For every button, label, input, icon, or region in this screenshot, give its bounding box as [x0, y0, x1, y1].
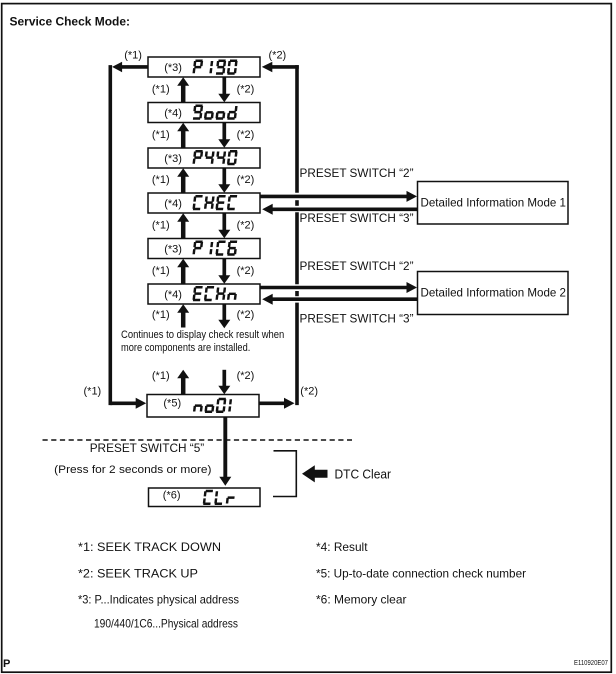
- svg-text:PRESET SWITCH “2”: PRESET SWITCH “2”: [300, 259, 414, 273]
- wire left loop vertical: [109, 65, 113, 405]
- svg-text:(*2): (*2): [237, 83, 255, 95]
- svg-text:Service Check Mode:: Service Check Mode:: [10, 14, 131, 28]
- svg-text:(*2): (*2): [237, 129, 255, 141]
- box Detailed Information Mode 2: [418, 272, 569, 315]
- box display P440: [148, 148, 260, 168]
- wire Detailed Mode 2 back to ECHn: [273, 297, 418, 301]
- display text P440: [192, 150, 237, 165]
- wire top-right horizontal into box P190: [272, 65, 299, 69]
- wire right loop jump dash 1: [295, 200, 299, 206]
- box display P1C6: [148, 239, 260, 259]
- display text ECHn: [192, 286, 236, 301]
- wire down arrow CHEC to P1C6: [222, 213, 226, 231]
- arrowhead left into ECHn: [262, 294, 273, 305]
- svg-text:190/440/1C6...Physical address: 190/440/1C6...Physical address: [94, 617, 238, 631]
- svg-text:(*2): (*2): [237, 309, 255, 321]
- box display ECHn: [148, 284, 260, 304]
- box Detailed Information Mode 1: [418, 182, 569, 225]
- svg-text:PRESET SWITCH “5”: PRESET SWITCH “5”: [90, 441, 205, 455]
- svg-text:(*1): (*1): [152, 220, 170, 232]
- wire down arrow ECHn to continuation: [222, 304, 226, 321]
- svg-text:DTC Clear: DTC Clear: [335, 467, 392, 482]
- box display good: [148, 103, 260, 123]
- wire right loop vertical segment 3: [295, 303, 299, 406]
- wire Detailed Mode 1 back to CHEC: [273, 208, 418, 212]
- svg-text:Detailed Information Mode 2: Detailed Information Mode 2: [421, 286, 567, 300]
- wire bottom-left horizontal into box no01: [110, 401, 137, 405]
- svg-text:(*1): (*1): [152, 370, 170, 382]
- wire down arrow good to P440: [222, 122, 226, 140]
- svg-text:(*1): (*1): [84, 386, 102, 398]
- arrowhead right into Detailed Mode 2: [407, 282, 418, 293]
- wire up arrow ECHn to P1C6: [181, 267, 186, 285]
- wire top-left horizontal from box P190: [121, 65, 148, 69]
- box display P190: [148, 57, 260, 77]
- svg-text:(*3): (*3): [164, 153, 182, 165]
- display text P 190: [192, 60, 237, 75]
- svg-text:*5: Up-to-date connection chec: *5: Up-to-date connection check number: [316, 566, 526, 580]
- bracket DTC clear range: [273, 451, 296, 497]
- svg-text:(*5): (*5): [163, 397, 181, 409]
- wire up arrow P440 to good: [181, 131, 186, 149]
- svg-text:PRESET SWITCH “3”: PRESET SWITCH “3”: [300, 211, 414, 225]
- wire right loop vertical segment 1: [295, 65, 299, 193]
- wire up arrow continuation to ECHn: [181, 312, 186, 328]
- arrowhead right into Detailed Mode 1: [407, 191, 418, 202]
- wire CHEC to Detailed Mode 1: [260, 195, 408, 199]
- wire down arrow P440 to CHEC: [222, 168, 226, 186]
- wire bottom-right horizontal from box no01: [259, 401, 284, 405]
- svg-text:(*2): (*2): [300, 386, 318, 398]
- arrowhead left into CHEC: [262, 204, 273, 215]
- svg-text:(*2): (*2): [269, 50, 287, 62]
- svg-text:(*1): (*1): [152, 309, 170, 321]
- display text CHEC: [192, 195, 237, 210]
- display text P1C6: [192, 241, 237, 256]
- wire ECHn to Detailed Mode 2: [260, 286, 408, 290]
- arrowhead left into box P190: [262, 62, 273, 72]
- svg-text:(*1): (*1): [152, 174, 170, 186]
- display text CLr: [203, 490, 235, 505]
- svg-text:(*4): (*4): [164, 198, 182, 210]
- svg-text:E110920E07: E110920E07: [574, 658, 608, 667]
- wire down arrow continuation to no01: [222, 370, 226, 387]
- wire right loop jump dash 2: [295, 291, 299, 296]
- svg-text:*6: Memory clear: *6: Memory clear: [316, 593, 407, 607]
- svg-text:*3: P...Indicates physical add: *3: P...Indicates physical address: [78, 593, 239, 607]
- svg-text:PRESET SWITCH “3”: PRESET SWITCH “3”: [300, 312, 414, 326]
- svg-text:(*4): (*4): [164, 108, 182, 120]
- svg-text:(*1): (*1): [152, 265, 170, 277]
- wire no01 down to CLr: [223, 417, 227, 478]
- svg-text:(*2): (*2): [237, 220, 255, 232]
- wire down arrow P1C6 to ECHn: [222, 258, 226, 276]
- svg-text:(*1): (*1): [152, 129, 170, 141]
- svg-text:(*2): (*2): [237, 265, 255, 277]
- arrow DTC Clear: [302, 465, 328, 482]
- svg-text:(*3): (*3): [164, 62, 182, 74]
- svg-text:(*1): (*1): [124, 50, 142, 62]
- box display no01: [147, 395, 259, 418]
- box display CHEC: [148, 193, 260, 213]
- svg-text:PRESET SWITCH “2”: PRESET SWITCH “2”: [300, 166, 414, 180]
- wire up arrow CHEC to P440: [181, 176, 186, 194]
- svg-text:(Press for 2 seconds or more): (Press for 2 seconds or more): [54, 464, 211, 476]
- wire up arrow good to P190: [181, 85, 186, 103]
- svg-text:P: P: [3, 658, 10, 670]
- svg-text:(*4): (*4): [164, 289, 182, 301]
- arrowhead right into box no01: [136, 398, 147, 409]
- svg-text:*2: SEEK TRACK UP: *2: SEEK TRACK UP: [78, 566, 198, 580]
- svg-text:(*1): (*1): [152, 83, 170, 95]
- wire right loop vertical segment 2: [295, 212, 299, 284]
- arrowhead right into right loop: [284, 398, 295, 409]
- svg-text:Detailed Information Mode 1: Detailed Information Mode 1: [421, 196, 567, 210]
- dashed separator line: [43, 439, 353, 441]
- display text no01: [193, 398, 232, 413]
- svg-text:*4: Result: *4: Result: [316, 540, 368, 554]
- wire up arrow no01 to continuation: [181, 378, 186, 395]
- svg-text:*1: SEEK TRACK DOWN: *1: SEEK TRACK DOWN: [78, 540, 221, 554]
- svg-text:(*3): (*3): [164, 244, 182, 256]
- display text good: [193, 105, 238, 120]
- svg-text:more components are installed.: more components are installed.: [121, 342, 250, 354]
- box display CLr: [149, 488, 261, 507]
- arrowhead left into left loop: [112, 62, 122, 72]
- svg-text:Continues to display check res: Continues to display check result when: [121, 329, 284, 341]
- svg-text:(*2): (*2): [237, 174, 255, 186]
- wire down arrow P190 to good: [222, 77, 226, 95]
- svg-text:(*2): (*2): [237, 370, 255, 382]
- wire up arrow P1C6 to CHEC: [181, 221, 186, 239]
- svg-text:(*6): (*6): [163, 490, 181, 502]
